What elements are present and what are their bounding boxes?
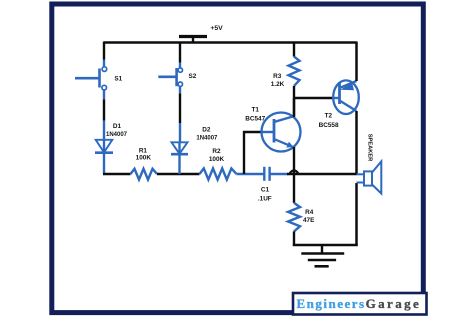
label R3 1.2K xyxy=(271,73,285,88)
logo EngineersGarage xyxy=(293,293,427,315)
wire node to speaker xyxy=(287,173,357,176)
switch S2 xyxy=(158,68,182,87)
svg-text:S2: S2 xyxy=(188,73,196,80)
wire R1 to D2 node xyxy=(157,173,200,176)
wire speaker down xyxy=(355,183,358,246)
svg-text:T1: T1 xyxy=(251,106,259,113)
transistor T1 xyxy=(262,113,301,152)
wire top rail xyxy=(104,41,357,44)
wire T1 collector to R3 node xyxy=(293,98,295,116)
wire rail to T2 emitter xyxy=(355,42,358,82)
wire T2 collector down xyxy=(355,111,358,175)
svg-text:+5V: +5V xyxy=(210,25,223,32)
label R1 100K xyxy=(136,148,152,162)
svg-text:R4: R4 xyxy=(305,209,314,216)
resistor R4 xyxy=(288,174,300,246)
label C1 .1UF xyxy=(258,186,272,202)
junction bump node xyxy=(290,170,299,173)
wire bottom rail xyxy=(293,244,358,247)
transistor T2 xyxy=(333,80,359,114)
svg-text:1.2K: 1.2K xyxy=(271,81,285,88)
wire rail to S2 xyxy=(179,42,181,68)
svg-text:D1: D1 xyxy=(113,123,122,130)
svg-text:R1: R1 xyxy=(139,148,148,155)
speaker SP1 xyxy=(357,161,382,193)
wire S2 to D2 xyxy=(179,86,181,142)
wire T1 emitter to node xyxy=(293,147,295,174)
label T2 BC558 xyxy=(319,113,339,129)
wire node to T1 base xyxy=(243,131,274,174)
resistor R1 xyxy=(131,169,158,180)
svg-text:R3: R3 xyxy=(273,73,282,80)
wire D1 to R1 xyxy=(103,173,131,176)
svg-text:SPEAKER: SPEAKER xyxy=(367,134,373,162)
label R4 47E xyxy=(303,209,315,224)
svg-text:EngineersGarage: EngineersGarage xyxy=(297,296,422,311)
svg-text:BC558: BC558 xyxy=(319,122,339,129)
svg-text:T2: T2 xyxy=(325,113,333,120)
label T1 BC547 xyxy=(245,106,265,122)
capacitor C1 xyxy=(264,167,288,181)
svg-text:D2: D2 xyxy=(202,127,211,134)
wire R2 to C1 xyxy=(237,173,265,175)
label D1 1N4007 xyxy=(106,123,128,138)
label R2 100K xyxy=(209,148,225,163)
label D2 1N4007 xyxy=(196,127,218,142)
power +5V symbol xyxy=(179,37,207,44)
resistor R2 xyxy=(200,168,237,179)
svg-text:C1: C1 xyxy=(261,186,270,193)
svg-text:100K: 100K xyxy=(209,156,225,163)
svg-text:1N4007: 1N4007 xyxy=(106,132,128,138)
diode D1 xyxy=(95,139,113,174)
svg-text:R2: R2 xyxy=(212,148,221,155)
svg-text:BC547: BC547 xyxy=(245,116,265,123)
wire S1 to D1 xyxy=(103,90,105,140)
wire rail to S1 xyxy=(103,42,105,67)
diode D2 xyxy=(171,142,188,175)
svg-text:S1: S1 xyxy=(114,76,122,83)
svg-text:.1UF: .1UF xyxy=(258,195,272,202)
svg-text:1N4007: 1N4007 xyxy=(196,136,218,142)
svg-text:47E: 47E xyxy=(303,217,315,224)
resistor R3 xyxy=(289,42,300,118)
ground xyxy=(301,245,344,266)
svg-text:100K: 100K xyxy=(136,155,152,162)
wire R3 node to T2 base xyxy=(293,97,340,99)
switch S1 xyxy=(75,67,107,90)
